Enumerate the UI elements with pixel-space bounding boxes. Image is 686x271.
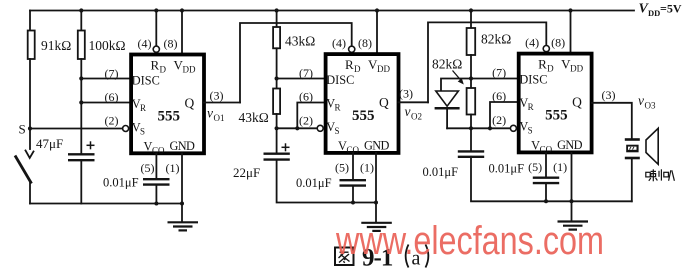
- label speaker: [646, 169, 675, 181]
- wire pin6-3 L: [490, 102, 518, 128]
- capacitor C 47uF: [68, 153, 95, 155]
- svg-text:43kΩ: 43kΩ: [285, 34, 315, 49]
- svg-text:(8): (8): [551, 35, 565, 49]
- resistor R 82k upper: [467, 28, 476, 55]
- svg-text:S: S: [528, 126, 533, 136]
- wire VDD top rail: [30, 10, 634, 12]
- wire Q3 output to speaker: [592, 103, 632, 139]
- svg-text:(1): (1): [553, 160, 567, 174]
- wire Q1 output: [204, 102, 240, 104]
- ground G1: [168, 222, 199, 230]
- svg-text:(4): (4): [138, 36, 152, 50]
- wire 43k1 to 43k2: [276, 48, 278, 88]
- node rail-100k junction: [79, 8, 83, 12]
- svg-text:0.01μF: 0.01μF: [103, 176, 139, 190]
- diode D1: [436, 91, 459, 106]
- svg-text:91kΩ: 91kΩ: [41, 38, 71, 53]
- svg-text:GND: GND: [364, 139, 390, 153]
- svg-text:O1: O1: [214, 113, 225, 123]
- svg-text:22μF: 22μF: [233, 165, 260, 180]
- capacitor C 0.01uF VCO3: [533, 176, 559, 178]
- node rail-pin8-1 junction: [180, 8, 184, 12]
- wire 0.01uF-1 to bottom: [155, 185, 157, 204]
- svg-text:(7): (7): [299, 66, 313, 80]
- node cap1-bottom: [154, 202, 158, 206]
- svg-text:R: R: [538, 57, 547, 72]
- wire 0.01uF-3b to bottom: [545, 183, 547, 201]
- node pin1-3-bottomrail: [570, 199, 574, 203]
- pin 2 bubble U3: [510, 125, 516, 131]
- svg-text:(1): (1): [166, 161, 180, 175]
- node rail-43k junction: [275, 8, 279, 12]
- op 555 U1: [105, 36, 205, 175]
- svg-text:(5): (5): [335, 161, 349, 175]
- node 43k-pin7: [275, 76, 279, 80]
- node pin6-3 junction: [488, 126, 492, 130]
- wire pin1-3 to ground: [571, 153, 573, 221]
- wire pin6-2 L: [297, 103, 324, 129]
- svg-text:(5): (5): [141, 161, 155, 175]
- wire 91k to S node: [29, 59, 31, 129]
- svg-text:(5): (5): [528, 160, 542, 174]
- svg-text:=5V: =5V: [660, 2, 682, 16]
- svg-text:Q: Q: [185, 96, 195, 111]
- svg-text:47μF: 47μF: [36, 136, 63, 151]
- node rail-pin8-3 junction: [568, 8, 572, 12]
- svg-text:82kΩ: 82kΩ: [481, 32, 511, 47]
- wire pin2-1: [30, 128, 122, 130]
- capacitor C 0.01uF timing: [458, 150, 484, 152]
- wire pin5-1: [155, 154, 157, 179]
- svg-text:DD: DD: [648, 8, 660, 18]
- resistor R 43k lower: [273, 89, 280, 115]
- svg-text:R: R: [345, 57, 354, 72]
- svg-text:0.01μF: 0.01μF: [489, 162, 525, 176]
- pin 4 bubble U2: [349, 46, 355, 52]
- wire 82k1 to node A: [470, 55, 472, 88]
- svg-text:v: v: [207, 106, 213, 121]
- svg-text:GND: GND: [557, 138, 583, 152]
- svg-text:O3: O3: [645, 101, 656, 111]
- svg-text:555: 555: [352, 108, 375, 124]
- wire 100k down to VS line: [80, 59, 82, 154]
- svg-text:Q: Q: [572, 95, 582, 110]
- node pin1-2-bottomrail: [374, 201, 378, 205]
- svg-text:(4): (4): [525, 35, 539, 49]
- svg-text:(2): (2): [105, 114, 119, 128]
- op 555 U2: [299, 36, 399, 175]
- svg-text:R: R: [335, 103, 341, 113]
- wire pin2-3: [447, 127, 510, 129]
- wire Q2 output: [399, 101, 429, 103]
- svg-text:(8): (8): [358, 36, 372, 50]
- node rail-pin4-1 junction: [154, 8, 158, 12]
- wire pin8-2 from rail: [376, 11, 378, 53]
- capacitor C 0.01uF first: [143, 178, 170, 180]
- label arrow 82k lower: [453, 71, 462, 82]
- wire 82k branch top: [470, 11, 472, 29]
- node 100k-pin6: [79, 100, 83, 104]
- wire pin7-3: [471, 78, 518, 80]
- wire 47uF to bottom: [80, 160, 82, 203]
- svg-text:R: R: [528, 102, 534, 112]
- node pin6-pin2 junction: [295, 126, 299, 130]
- svg-text:S: S: [335, 126, 340, 136]
- wire 43k2 down to 22uF: [276, 114, 278, 154]
- wire pin7-1: [81, 78, 130, 80]
- ground G3: [558, 222, 589, 230]
- wire bottom left rail: [30, 203, 182, 205]
- wire 0.01uF-2 to bottom: [352, 186, 354, 203]
- wire pin6-1: [81, 102, 130, 104]
- svg-text:v: v: [638, 93, 644, 108]
- wire vO2 up to pin4-3: [428, 22, 546, 102]
- wire pin2-2: [277, 127, 317, 129]
- node rail-82k junction: [469, 8, 473, 12]
- pin 4 bubble U1: [153, 46, 159, 52]
- node A pin7-3: [469, 76, 473, 80]
- wire speaker to bottom: [631, 158, 633, 201]
- speaker LS1: [625, 138, 640, 141]
- node cap2-bottom: [351, 201, 355, 205]
- svg-text:DD: DD: [183, 65, 196, 75]
- svg-text:43kΩ: 43kΩ: [239, 110, 269, 125]
- wire diode to pin2 line: [446, 108, 448, 128]
- svg-text:Q: Q: [379, 95, 389, 110]
- svg-text:D: D: [547, 64, 554, 74]
- svg-text:0.01μF: 0.01μF: [423, 165, 459, 179]
- svg-text:v: v: [405, 104, 411, 119]
- capacitor C 22uF: [264, 152, 290, 154]
- svg-text:S: S: [19, 122, 26, 137]
- svg-text:(2): (2): [299, 113, 313, 127]
- svg-text:100kΩ: 100kΩ: [89, 38, 126, 53]
- svg-text:555: 555: [545, 108, 568, 124]
- wire pin7-2: [277, 78, 325, 80]
- svg-text:R: R: [140, 103, 146, 113]
- svg-text:(3): (3): [602, 88, 616, 102]
- node B 82k2-pin2: [469, 126, 473, 130]
- svg-text:(8): (8): [164, 36, 178, 50]
- wire pin5-2: [352, 153, 354, 180]
- wire 22uF to bottom rail: [277, 160, 376, 203]
- wire pin8-1 from rail: [181, 11, 183, 54]
- wire diode branch top: [441, 79, 471, 91]
- pin 2 bubble U1: [123, 126, 129, 132]
- svg-text:www.elecfans.com: www.elecfans.com: [335, 219, 604, 263]
- svg-text:(3): (3): [210, 89, 224, 103]
- wire pin8-3 from rail: [570, 11, 572, 53]
- wire 100k branch top: [80, 11, 82, 31]
- wire pin1-2 to ground: [375, 153, 377, 222]
- svg-text:555: 555: [158, 109, 181, 125]
- op 555 U3: [492, 35, 591, 174]
- node S: [28, 126, 32, 130]
- wire pin5-3: [545, 153, 547, 177]
- caption figure 9-1(a): [335, 248, 354, 266]
- resistor R 43k upper: [273, 27, 280, 48]
- node pin1-bottomrail: [180, 202, 184, 206]
- switch S: [29, 129, 31, 150]
- svg-text:D: D: [160, 65, 167, 75]
- svg-text:CO: CO: [152, 146, 165, 156]
- resistor R 82k lower: [467, 88, 476, 115]
- svg-text:(6): (6): [105, 90, 119, 104]
- node cap3b-bottom: [544, 199, 548, 203]
- svg-text:(4): (4): [332, 36, 346, 50]
- svg-text:(2): (2): [492, 113, 506, 127]
- svg-text:(6): (6): [299, 90, 313, 104]
- node 100k-pin7: [79, 76, 83, 80]
- svg-text:DD: DD: [377, 64, 390, 74]
- wire vO1 up to pin4-2: [240, 23, 352, 103]
- node 43k2-pin2: [275, 126, 279, 130]
- svg-text:(7): (7): [105, 66, 119, 80]
- svg-text:DD: DD: [570, 64, 583, 74]
- svg-text:0.01μF: 0.01μF: [296, 176, 332, 190]
- svg-text:GND: GND: [170, 139, 196, 153]
- node rail-pin8-2 junction: [375, 8, 379, 12]
- svg-text:DISC: DISC: [519, 73, 547, 87]
- wire pin1-1 to ground: [181, 154, 183, 222]
- svg-text:O2: O2: [411, 112, 422, 122]
- wire left branch top: [29, 11, 31, 31]
- svg-text:DISC: DISC: [326, 73, 354, 87]
- svg-text:82kΩ: 82kΩ: [432, 57, 462, 72]
- resistor R 91k: [28, 31, 35, 60]
- wire 43k branch top: [276, 11, 278, 28]
- svg-text:R: R: [151, 58, 160, 73]
- svg-text:S: S: [140, 127, 145, 137]
- wire 0.01uF-3a to bottom rail: [471, 157, 632, 202]
- svg-text:DISC: DISC: [132, 74, 160, 88]
- svg-text:(6): (6): [492, 89, 506, 103]
- capacitor C 0.01uF second: [340, 179, 367, 181]
- resistor R 100k: [78, 31, 85, 60]
- svg-text:D: D: [354, 64, 361, 74]
- ground G2: [361, 223, 392, 231]
- svg-text:(3): (3): [399, 87, 413, 101]
- pin 4 bubble U3: [543, 46, 549, 52]
- svg-text:(7): (7): [492, 65, 506, 79]
- wire pin4-1 from rail: [155, 11, 157, 46]
- svg-text:(1): (1): [360, 161, 374, 175]
- pin 2 bubble U2: [317, 125, 323, 131]
- wire 82k2 to node B: [470, 115, 472, 152]
